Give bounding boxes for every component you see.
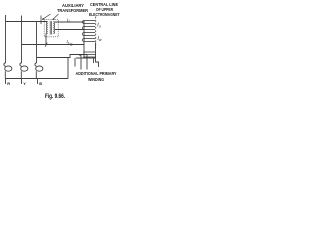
winding hook v3 xyxy=(86,55,88,70)
T1 core xyxy=(50,21,51,35)
right hook wire xyxy=(96,58,99,67)
choke coil on phase B xyxy=(20,63,22,66)
winding hook v2 xyxy=(80,55,82,70)
bottom bus wire xyxy=(6,78,69,80)
T1 dashed enclosure xyxy=(44,19,58,36)
central line of upper electromagnet (dashed) xyxy=(95,17,97,49)
label: CENTRAL LINE OF UPPER ELECTROMAGNET xyxy=(89,2,120,17)
phase line C lower wire xyxy=(35,71,37,78)
label: AUXILIARY TRANSFORMER xyxy=(57,3,88,13)
current arrowhead on wire Wb xyxy=(71,43,75,46)
terminal stub A xyxy=(5,79,7,85)
svg-text:B: B xyxy=(39,81,42,86)
junction kink xyxy=(45,43,47,47)
svg-text:R: R xyxy=(7,81,10,86)
terminal stub B xyxy=(21,79,23,85)
transformer primary drop wire xyxy=(45,34,47,45)
svg-text:Fig. 9.66.: Fig. 9.66. xyxy=(45,94,65,100)
winding right edge wire xyxy=(95,43,97,59)
winding hook v4 xyxy=(93,58,95,63)
junction dots xyxy=(79,54,81,56)
auxiliary transformer T1 xyxy=(44,19,58,36)
wire W1 from phase C to additional winding xyxy=(37,55,88,58)
choke coil on phase A xyxy=(4,63,6,66)
secondary wire S2 xyxy=(55,29,84,31)
switch stub above bus xyxy=(40,16,42,25)
phase line B vertical xyxy=(21,16,23,64)
leader arrow to bus junction xyxy=(42,14,50,20)
leader arrow to transformer xyxy=(53,14,59,20)
top bus wire xyxy=(6,21,48,23)
T1 primary winding xyxy=(47,22,48,34)
phase line A lower wire xyxy=(4,71,6,78)
svg-text:ADDITIONAL PRIMARY: ADDITIONAL PRIMARY xyxy=(76,71,117,76)
svg-text:Ib: Ib xyxy=(67,39,70,45)
svg-text:ELECTROMAGNET: ELECTROMAGNET xyxy=(89,12,120,17)
choke coil on phase C xyxy=(35,63,37,66)
secondary wire S1 xyxy=(55,21,84,23)
electromagnet main winding W2 xyxy=(82,21,95,59)
wire Wb from phase B to magnet xyxy=(22,44,85,46)
terminal stub C xyxy=(37,79,39,85)
phase line A vertical xyxy=(5,15,7,63)
svg-text:Y: Y xyxy=(23,81,26,86)
T1 secondary winding xyxy=(53,22,54,34)
svg-text:I2: I2 xyxy=(67,18,70,24)
winding hook v1 xyxy=(74,58,76,67)
phase line C vertical xyxy=(36,22,38,63)
additional primary winding turns xyxy=(83,52,95,57)
return riser wire xyxy=(67,58,69,79)
svg-text:TRANSFORMER: TRANSFORMER xyxy=(57,8,88,13)
svg-text:WINDING: WINDING xyxy=(88,77,104,82)
additional winding lower line xyxy=(76,57,96,59)
label: ADDITIONAL PRIMARY WINDING xyxy=(76,71,117,82)
phase line B lower wire xyxy=(20,71,22,78)
